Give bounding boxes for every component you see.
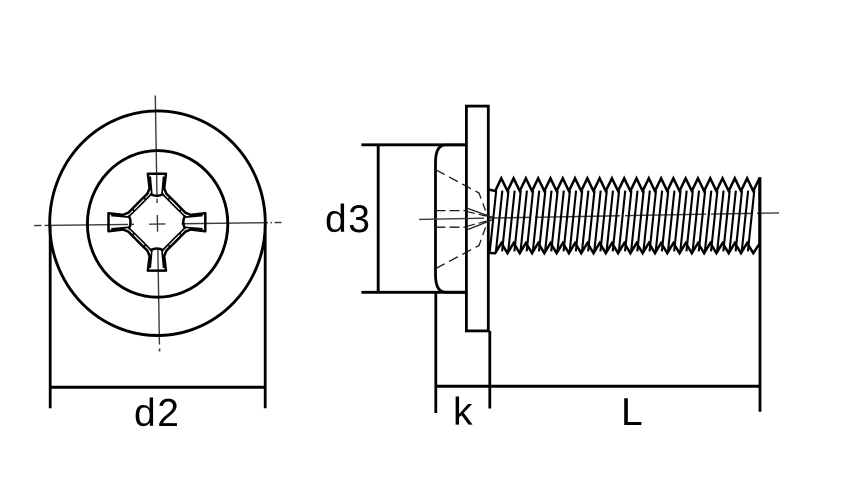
d2 extension line right	[264, 226, 267, 408]
phillips recess arm top	[138, 174, 176, 203]
recess taper line lower solid	[468, 219, 494, 229]
front view horizontal centerline	[34, 223, 282, 226]
L extension line right (thread end extended)	[759, 177, 762, 411]
label k	[453, 391, 473, 435]
front view vertical centerline	[155, 96, 159, 345]
thread crest bottom zigzag	[488, 243, 759, 253]
label d2	[134, 392, 180, 436]
recess hidden outline upper diagonal (dashed)	[436, 170, 486, 211]
thread flank lines	[490, 191, 755, 252]
d3 extension line bottom	[361, 291, 467, 294]
k extension line left (head face extended)	[434, 292, 437, 413]
d2 extension line left	[49, 226, 52, 408]
label L	[621, 391, 643, 435]
side view centerline	[419, 213, 779, 220]
recess slot taper dashed upper (in washer)	[467, 212, 491, 218]
phillips recess arm right	[176, 203, 205, 241]
k extension line right (washer face extended)	[488, 331, 491, 409]
phillips recess chamfer ticks	[111, 177, 202, 268]
d2 dimension line	[50, 386, 265, 389]
thread crest top zigzag	[488, 178, 759, 191]
d3 dimension line	[377, 145, 380, 292]
k and L dimension line	[436, 385, 760, 388]
washer outer circle (front view)	[50, 111, 266, 336]
recess slot upper edge (dashed)	[436, 210, 467, 212]
d3 extension line top	[361, 143, 467, 146]
label d3	[325, 198, 371, 242]
captive washer (side view)	[466, 106, 488, 331]
recess taper line upper solid	[468, 209, 494, 218]
recess slot lower edge (dashed)	[436, 226, 467, 228]
recess hidden outline lower diagonal (dashed)	[436, 228, 486, 269]
thread end face	[758, 177, 761, 243]
phillips recess arm left	[109, 203, 138, 241]
phillips recess arm bottom	[138, 241, 176, 270]
recess slot taper dashed lower (in washer)	[467, 220, 491, 227]
front view vertical centerline end dot	[159, 349, 161, 352]
head outer circle (front view)	[87, 151, 227, 298]
screw head profile (side view)	[436, 145, 468, 292]
